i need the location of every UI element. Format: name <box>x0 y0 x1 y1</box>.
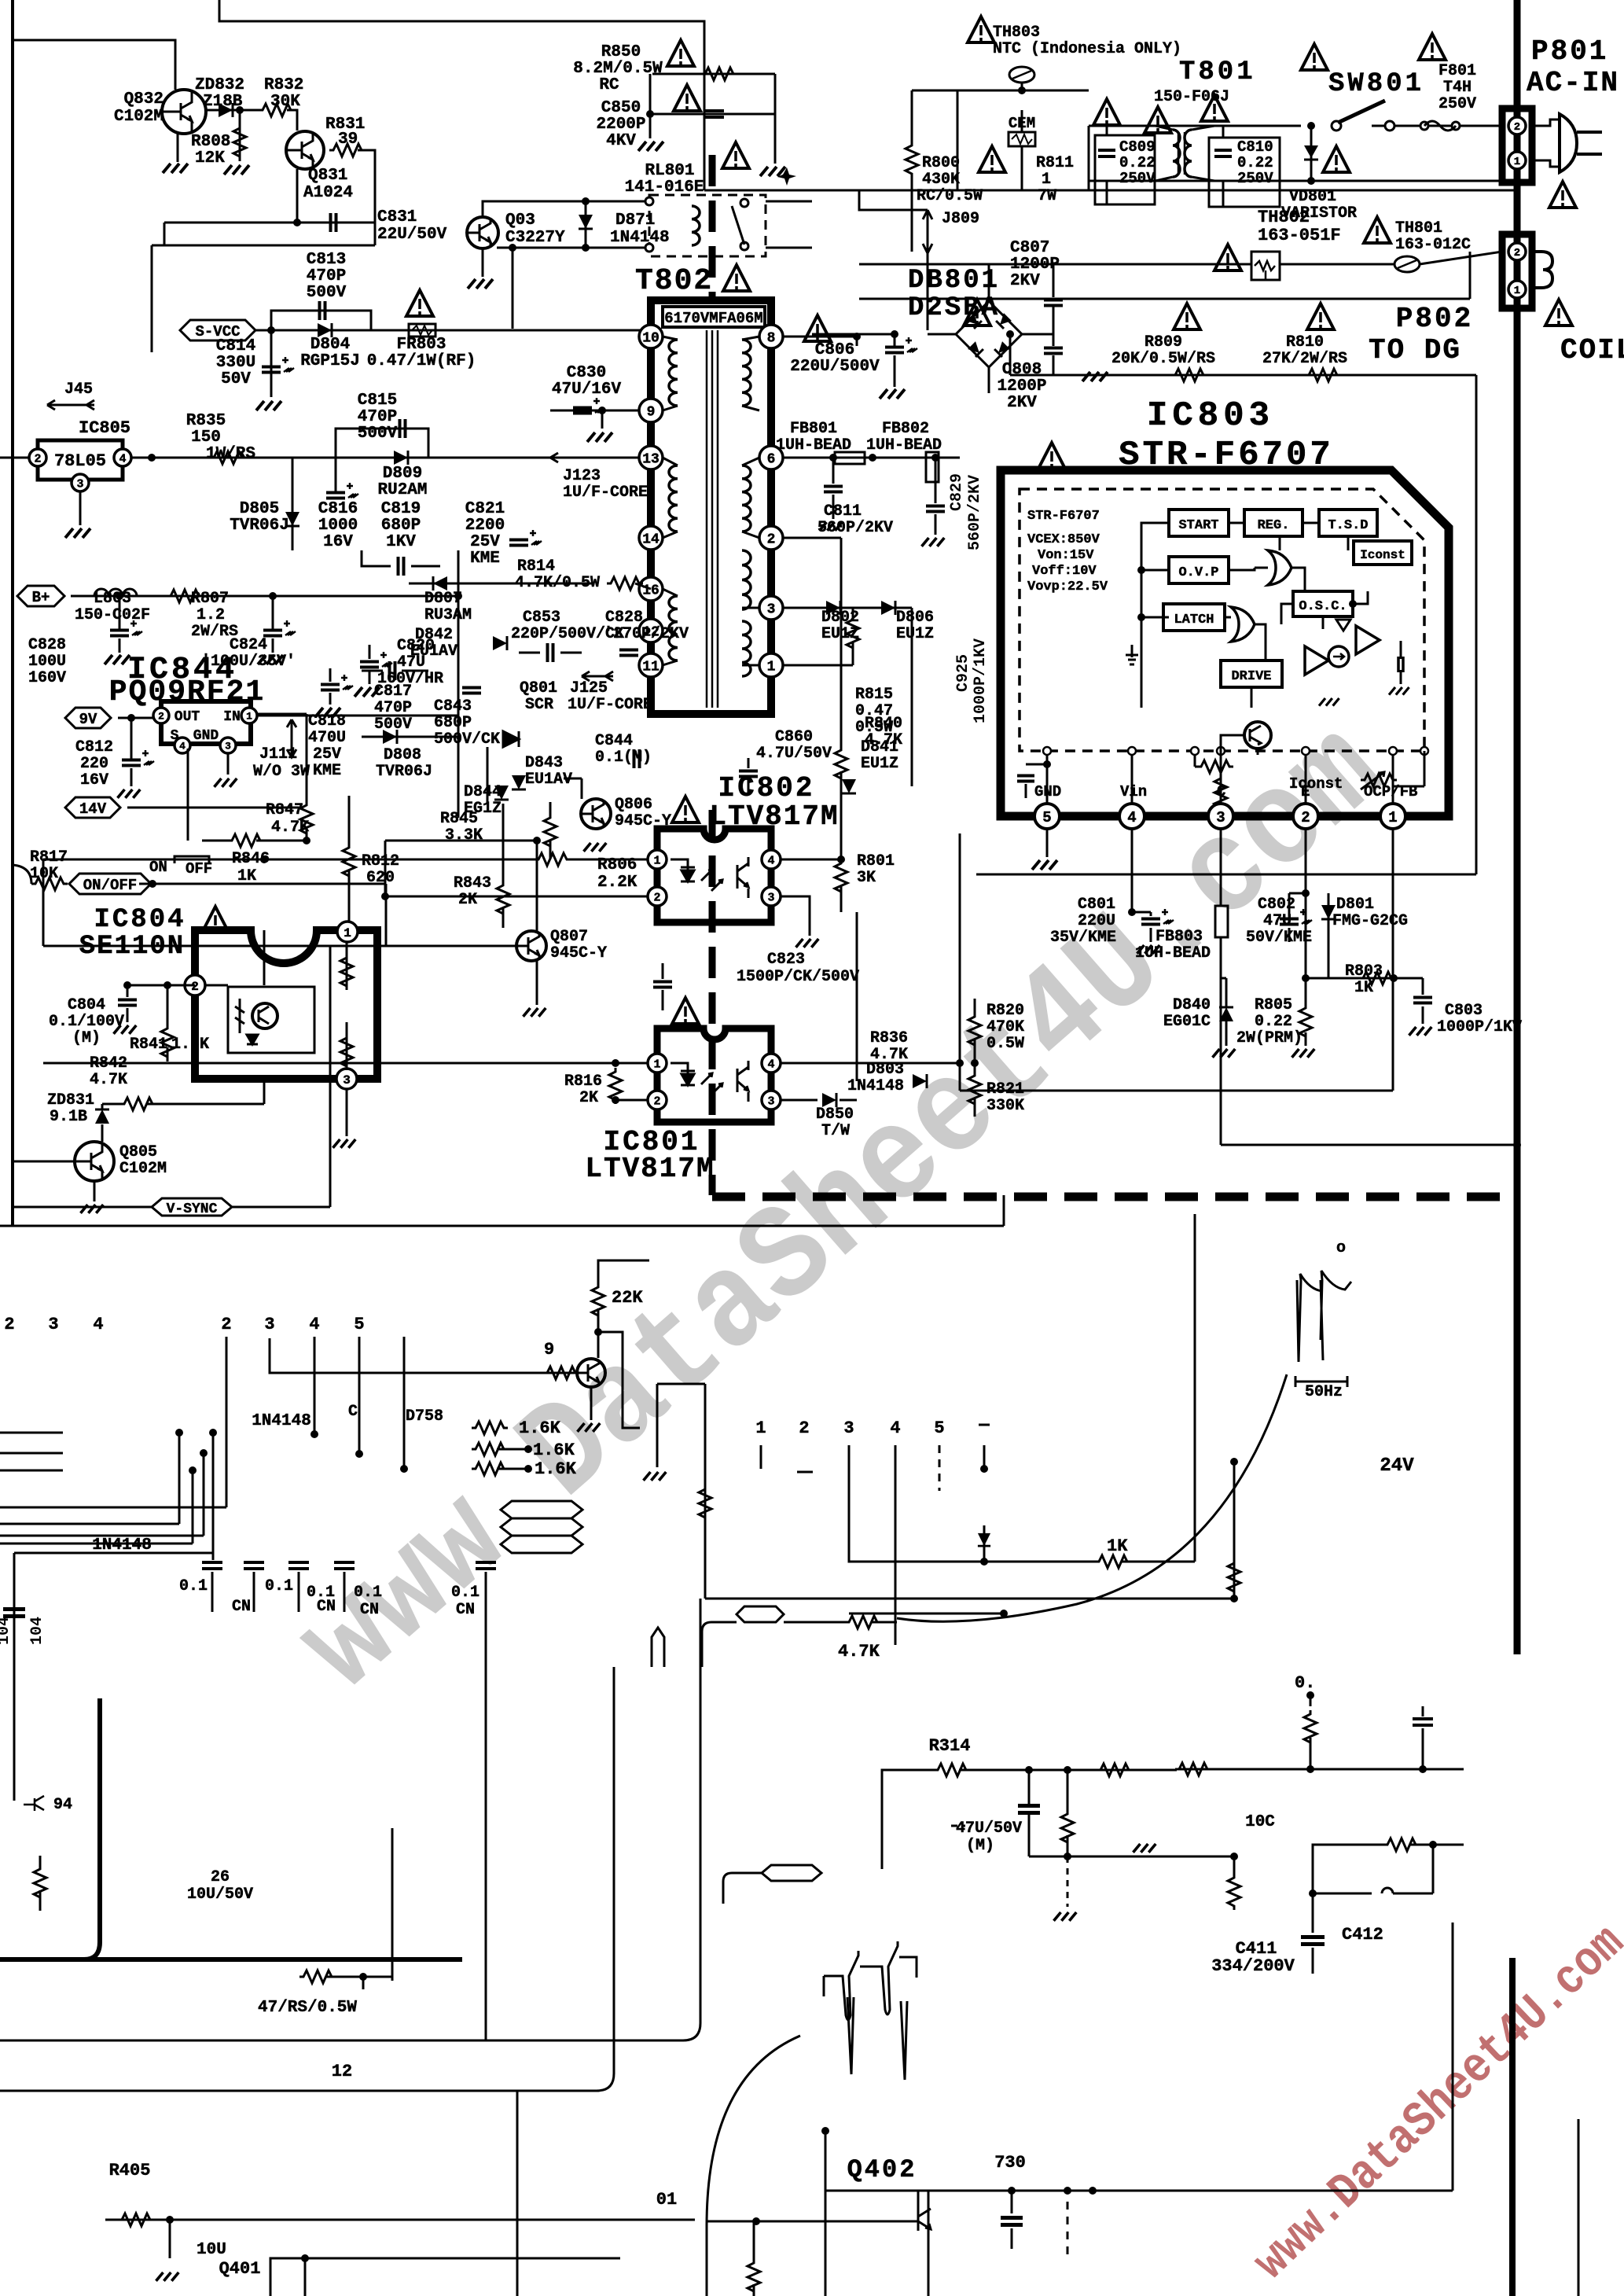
plug <box>1532 120 1560 126</box>
wire <box>205 984 228 987</box>
current source <box>1328 646 1349 667</box>
resistor <box>748 2259 760 2295</box>
fusible FR803 <box>409 324 435 337</box>
wire gnd stub <box>656 1384 659 1467</box>
svg-text:250V: 250V <box>1119 170 1156 187</box>
svg-text:D809: D809 <box>383 465 422 483</box>
svg-text:C807: C807 <box>1010 239 1049 257</box>
wire risers <box>457 596 460 818</box>
svg-text:3: 3 <box>767 891 774 904</box>
svg-text:4KV: 4KV <box>606 132 636 150</box>
svg-text:C860: C860 <box>775 728 813 746</box>
svg-text:470U: 470U <box>308 729 346 747</box>
wire 104 <box>14 1552 213 1555</box>
svg-text:R817: R817 <box>30 848 68 867</box>
svg-text:16V: 16V <box>80 771 108 789</box>
svg-text:4.7K: 4.7K <box>90 1071 127 1089</box>
svg-text:VCEX:850V: VCEX:850V <box>1027 532 1100 547</box>
wire <box>859 189 1089 192</box>
svg-text:680P: 680P <box>381 517 421 535</box>
capacitor 47U <box>1018 1804 1040 1808</box>
svg-text:1: 1 <box>653 854 660 867</box>
core <box>707 330 718 708</box>
block LATCH <box>1163 604 1225 631</box>
svg-text:C925: C925 <box>954 654 972 692</box>
svg-text:OCP/FB: OCP/FB <box>1364 783 1417 800</box>
wire q805 row <box>42 859 45 946</box>
wire pin3 down <box>1220 829 1222 906</box>
svg-text:Q03: Q03 <box>505 212 535 230</box>
svg-text:500V/CK: 500V/CK <box>434 730 500 749</box>
wire col4b <box>895 1445 897 1645</box>
wire <box>856 912 858 1081</box>
wire <box>13 1161 75 1163</box>
svg-text:47U/50V: 47U/50V <box>956 1820 1022 1838</box>
wire 2pin <box>263 930 266 985</box>
wire <box>706 2226 708 2296</box>
net V-SYNC <box>152 1198 232 1216</box>
wire <box>742 337 759 340</box>
svg-text:TH803: TH803 <box>993 24 1040 42</box>
svg-text:SE110N: SE110N <box>79 932 185 962</box>
gate OR2 <box>1231 607 1255 642</box>
svg-text:NTC (Indonesia ONLY): NTC (Indonesia ONLY) <box>993 40 1181 58</box>
wire <box>457 550 460 596</box>
warning <box>406 290 433 316</box>
resistor R808 <box>239 110 241 161</box>
svg-text:ON: ON <box>149 859 167 876</box>
wire pin3 <box>783 607 853 609</box>
wire pin4 802 <box>781 859 841 861</box>
svg-text:50V/KME: 50V/KME <box>1246 929 1312 947</box>
svg-text:9: 9 <box>544 1340 554 1360</box>
svg-text:C844: C844 <box>595 732 633 750</box>
wire R809/R810 rail <box>1010 374 1476 377</box>
gate OR1 <box>1268 550 1291 585</box>
svg-text:1N4148: 1N4148 <box>252 1412 311 1430</box>
svg-text:150: 150 <box>191 429 221 447</box>
warning <box>1549 182 1576 208</box>
resistor R800 <box>906 142 918 178</box>
ground <box>258 655 283 664</box>
thermistor TH801 <box>1364 217 1391 243</box>
svg-text:10U: 10U <box>197 2241 226 2259</box>
svg-text:220U/500V: 220U/500V <box>790 358 880 376</box>
capacitor C805sec <box>856 337 858 346</box>
wire col5 <box>358 1337 361 1454</box>
ground <box>587 432 612 442</box>
pin 12 <box>639 619 663 642</box>
svg-text:3: 3 <box>225 741 231 752</box>
svg-text:EU1Z: EU1Z <box>861 755 898 773</box>
svg-text:Vovp:22.5V: Vovp:22.5V <box>1027 580 1108 594</box>
svg-text:3: 3 <box>1216 809 1225 826</box>
ground <box>105 655 130 664</box>
svg-text:0.1: 0.1 <box>307 1584 335 1602</box>
svg-text:141-016E: 141-016E <box>625 178 704 197</box>
waveform 50Hz <box>1295 1271 1351 1387</box>
pin3 802 <box>762 887 781 906</box>
wire colD <box>403 1337 406 1469</box>
pin2 804 <box>185 975 205 995</box>
resistor <box>1228 1874 1240 1910</box>
svg-text:T4H: T4H <box>1443 79 1472 97</box>
pin 14 <box>639 526 663 550</box>
svg-text:TH801: TH801 <box>1395 219 1442 237</box>
wire <box>1021 110 1023 132</box>
svg-text:1: 1 <box>1514 285 1520 297</box>
svg-text:250V: 250V <box>1438 95 1476 113</box>
svg-text:27K/2W/RS: 27K/2W/RS <box>1262 350 1347 368</box>
cap internal <box>1397 657 1400 672</box>
block TSD <box>1319 510 1377 536</box>
svg-text:22U/50V: 22U/50V <box>377 226 447 244</box>
wire <box>911 608 913 786</box>
wire <box>13 40 175 90</box>
svg-text:1: 1 <box>1388 809 1397 826</box>
resistor 47RS <box>299 1970 336 1983</box>
svg-text:R836: R836 <box>870 1029 908 1047</box>
svg-text:1U/F-CORE: 1U/F-CORE <box>563 484 648 502</box>
svg-text:1: 1 <box>1042 171 1051 189</box>
svg-text:GND: GND <box>193 728 219 744</box>
svg-text:D808: D808 <box>384 746 421 764</box>
amp A1 <box>1305 646 1328 675</box>
svg-text:F801: F801 <box>1438 62 1476 80</box>
svg-text:0.1: 0.1 <box>265 1577 293 1595</box>
svg-text:T/W: T/W <box>821 1122 850 1140</box>
wire <box>358 150 375 245</box>
IC803 inner dashed <box>1020 489 1424 751</box>
transistor <box>577 1359 605 1387</box>
svg-text:4: 4 <box>767 854 774 867</box>
wire pin2 down <box>1305 829 1307 1004</box>
wire <box>497 247 649 249</box>
svg-text:R841: R841 <box>130 1036 167 1054</box>
capacitor C831 <box>329 213 333 232</box>
svg-text:SW801: SW801 <box>1328 69 1424 99</box>
svg-text:R850: R850 <box>601 43 641 61</box>
svg-text:1.6K: 1.6K <box>535 1459 577 1479</box>
svg-text:Vin: Vin <box>1120 783 1147 800</box>
svg-text:STR-F6707: STR-F6707 <box>1027 509 1100 524</box>
ground <box>114 1025 137 1034</box>
wire col3 <box>270 1338 578 1373</box>
IC IC844 body <box>161 701 251 744</box>
block Iconst <box>1354 541 1412 565</box>
svg-text:FR803: FR803 <box>396 336 446 354</box>
svg-text:R846: R846 <box>232 850 270 868</box>
svg-text:5: 5 <box>1042 809 1051 826</box>
wire pin3 802 <box>781 896 810 936</box>
wire <box>1029 1856 1234 1858</box>
svg-text:14: 14 <box>642 532 660 547</box>
svg-text:R314: R314 <box>929 1736 971 1756</box>
svg-text:30K: 30K <box>270 93 300 111</box>
svg-text:E: E <box>1301 783 1310 800</box>
thermistor TH803 <box>968 17 994 42</box>
svg-text:1K: 1K <box>1107 1536 1128 1556</box>
svg-text:IC804: IC804 <box>94 905 186 935</box>
ground <box>156 2272 179 2281</box>
svg-text:78L05: 78L05 <box>54 451 106 471</box>
resistor R810 <box>1307 304 1334 329</box>
thick bar right bottom <box>1509 1958 1516 2296</box>
wire R314 row right <box>1177 1768 1464 1771</box>
wire <box>516 2091 519 2296</box>
wire <box>649 74 652 138</box>
dashed col5 <box>939 1445 941 1491</box>
svg-text:3: 3 <box>767 1095 774 1108</box>
diode D809 <box>394 451 408 465</box>
wire AC top <box>957 189 1517 192</box>
diode D871 <box>585 201 587 248</box>
svg-text:REG.: REG. <box>1258 518 1290 533</box>
gnd internal <box>1389 687 1409 695</box>
ground <box>215 778 237 787</box>
thick AC barrier line <box>1514 0 1521 1654</box>
winding s2 <box>742 465 751 532</box>
wire <box>219 0 704 190</box>
resistor internal2 <box>1214 775 1227 811</box>
pin 1 <box>759 653 783 677</box>
wire thick block <box>0 1698 100 1959</box>
svg-text:PQ09RF21: PQ09RF21 <box>109 675 265 709</box>
svg-text:35V/KME: 35V/KME <box>1050 929 1116 947</box>
svg-text:'270P/2KV: '270P/2KV <box>604 625 689 643</box>
svg-text:2: 2 <box>191 980 199 994</box>
wire <box>94 1181 96 1201</box>
svg-text:2: 2 <box>1301 809 1310 826</box>
ground <box>1082 372 1108 381</box>
svg-text:R807: R807 <box>191 590 229 608</box>
wire <box>329 946 332 1207</box>
resistors 1.6K <box>472 1422 508 1434</box>
wire <box>928 2191 930 2296</box>
net 9V <box>65 708 111 728</box>
wire <box>127 807 299 809</box>
box C412 <box>1313 1845 1383 1893</box>
wire col4 <box>314 1337 316 1434</box>
svg-text:C809: C809 <box>1119 138 1156 156</box>
svg-text:EG1Z: EG1Z <box>464 800 502 818</box>
ground sym <box>1133 1844 1156 1853</box>
zener ZD832 <box>206 109 259 112</box>
svg-text:D843: D843 <box>525 754 563 772</box>
svg-text:RU3AM: RU3AM <box>424 606 472 624</box>
svg-text:IC803: IC803 <box>1147 396 1274 436</box>
svg-text:ON/OFF: ON/OFF <box>83 877 137 894</box>
wire <box>760 1445 762 1469</box>
wire <box>131 457 647 459</box>
svg-text:CN: CN <box>456 1601 475 1619</box>
svg-text:LTV817M: LTV817M <box>585 1153 715 1185</box>
svg-text:16: 16 <box>642 583 660 598</box>
svg-text:2200: 2200 <box>465 517 505 535</box>
svg-text:3: 3 <box>264 1315 274 1334</box>
wire <box>43 859 535 861</box>
ground <box>333 1139 356 1148</box>
node <box>509 244 516 252</box>
svg-text:25V: 25V <box>470 533 500 551</box>
diode <box>978 1533 990 1546</box>
svg-text:01: 01 <box>656 2190 677 2210</box>
svg-text:47U: 47U <box>1263 912 1291 930</box>
wire <box>43 1062 648 1065</box>
svg-text:4.7K: 4.7K <box>838 1642 880 1661</box>
wire right edge <box>1578 2119 1580 2296</box>
wire <box>346 1022 348 1069</box>
wire <box>257 715 458 717</box>
wire <box>704 190 928 210</box>
svg-text:C810: C810 <box>1237 138 1273 156</box>
svg-text:2.2K: 2.2K <box>597 874 637 892</box>
svg-text:C803: C803 <box>1445 1002 1483 1020</box>
svg-text:2200P: 2200P <box>596 116 645 134</box>
transistor Q805 <box>75 1142 114 1181</box>
svg-text:T802: T802 <box>635 264 713 298</box>
fat arrow2 <box>762 1865 821 1881</box>
svg-text:R840: R840 <box>865 715 902 733</box>
capacitor C411/C412 <box>1312 1893 1314 1933</box>
wire <box>702 1622 737 1667</box>
pulse waveforms <box>824 1941 917 2080</box>
svg-text:47/RS/0.5W: 47/RS/0.5W <box>258 1999 357 2017</box>
svg-text:1: 1 <box>653 1058 660 1071</box>
pin3 804 <box>336 1069 357 1089</box>
wire pin8 <box>783 336 857 338</box>
svg-text:C412: C412 <box>1342 1925 1383 1945</box>
wire <box>774 74 777 164</box>
svg-text:3: 3 <box>76 477 83 491</box>
ground <box>880 389 905 399</box>
wire <box>825 2131 827 2296</box>
wire loop <box>1221 1144 1517 1146</box>
svg-text:C804: C804 <box>68 996 105 1014</box>
ground <box>118 789 141 798</box>
wire <box>536 961 538 1005</box>
svg-text:R801: R801 <box>857 852 895 870</box>
warning <box>667 40 694 66</box>
svg-text:4.7U/50V: 4.7U/50V <box>756 745 832 763</box>
pin3 801 <box>762 1091 781 1109</box>
svg-text:4.7K: 4.7K <box>865 731 902 749</box>
svg-text:11: 11 <box>642 659 660 675</box>
wire <box>385 896 648 898</box>
svg-text:DB801: DB801 <box>908 266 1000 296</box>
svg-text:o: o <box>1336 1239 1346 1257</box>
wire <box>151 245 153 352</box>
ground pin5 <box>1032 860 1057 870</box>
svg-text:150-C02F: 150-C02F <box>75 606 150 624</box>
svg-text:3.3K: 3.3K <box>445 826 483 844</box>
svg-text:C829: C829 <box>948 473 966 511</box>
wire onoff down <box>385 884 388 946</box>
pin2 802 <box>648 887 667 906</box>
svg-text:FMG-G2CG: FMG-G2CG <box>1332 912 1408 930</box>
svg-text:2W(PRM): 2W(PRM) <box>1236 1029 1303 1047</box>
svg-text:R816: R816 <box>564 1073 602 1091</box>
wire <box>512 248 514 329</box>
wire <box>346 942 348 987</box>
svg-text:Q831: Q831 <box>308 167 347 185</box>
svg-text:0.22: 0.22 <box>1255 1013 1292 1031</box>
bead FB803 <box>1215 906 1228 937</box>
pin4 802 <box>762 850 781 869</box>
svg-text:T801: T801 <box>1179 57 1256 87</box>
svg-text:R809: R809 <box>1145 333 1182 351</box>
wire colT <box>983 1445 986 1467</box>
svg-text:1: 1 <box>1514 156 1520 168</box>
diode D844 <box>494 786 509 800</box>
svg-text:20K/0.5W/RS: 20K/0.5W/RS <box>1111 350 1215 368</box>
svg-text:R808: R808 <box>191 133 230 151</box>
svg-text:C814: C814 <box>216 337 255 355</box>
ground <box>578 1423 601 1432</box>
svg-text:R810: R810 <box>1286 333 1324 351</box>
IC IC801 body <box>657 1028 771 1122</box>
svg-text:RGP15J: RGP15J <box>300 352 360 370</box>
svg-text:IC805: IC805 <box>79 418 130 438</box>
svg-text:1.6K: 1.6K <box>171 1036 209 1054</box>
svg-text:C3227Y: C3227Y <box>505 229 565 247</box>
svg-text:COIL: COIL <box>1560 334 1624 366</box>
wire <box>270 2258 620 2296</box>
svg-text:C815: C815 <box>358 392 397 410</box>
wire <box>13 1206 152 1209</box>
svg-text:100U: 100U <box>28 653 66 671</box>
svg-text:10U/50V: 10U/50V <box>187 1886 253 1904</box>
svg-text:Q805: Q805 <box>119 1143 157 1161</box>
svg-text:6: 6 <box>767 451 776 467</box>
block DRIVE <box>1221 660 1282 687</box>
svg-text:C823: C823 <box>767 951 805 969</box>
svg-text:2: 2 <box>4 1315 14 1334</box>
svg-text:TO DG: TO DG <box>1369 334 1461 366</box>
ground <box>796 939 819 947</box>
svg-text:D805: D805 <box>240 500 279 518</box>
wire <box>164 222 375 224</box>
svg-text:C806: C806 <box>815 341 854 359</box>
svg-text:2K: 2K <box>579 1089 598 1107</box>
pin 6 <box>759 446 783 469</box>
connector P802 <box>1502 234 1532 308</box>
svg-text:163-051F: 163-051F <box>1258 226 1341 245</box>
svg-text:VD801: VD801 <box>1289 188 1336 206</box>
svg-text:RC: RC <box>599 76 619 94</box>
svg-text:D840: D840 <box>1173 996 1211 1014</box>
svg-text:CN: CN <box>360 1601 379 1619</box>
pin2 801 <box>648 1091 667 1109</box>
svg-text:50V: 50V <box>221 370 251 388</box>
barrier dashed horizontal <box>712 1193 1513 1201</box>
wire y2033 <box>705 1598 1234 1600</box>
drive emitter net <box>1257 749 1259 755</box>
pin glyph <box>652 1628 664 1667</box>
svg-text:430K: 430K <box>922 171 960 189</box>
svg-text:C828: C828 <box>605 609 643 627</box>
svg-text:12K: 12K <box>195 149 225 167</box>
wire <box>742 607 759 609</box>
svg-text:J123: J123 <box>563 467 601 485</box>
svg-text:DRIVE: DRIVE <box>1231 669 1271 684</box>
svg-text:TVR06J: TVR06J <box>376 763 432 781</box>
net 14V <box>65 797 120 818</box>
wire <box>1469 252 1472 299</box>
svg-text:1500P/CK/500V: 1500P/CK/500V <box>737 968 859 986</box>
svg-text:470K: 470K <box>987 1018 1024 1036</box>
svg-text:500V: 500V <box>374 716 412 734</box>
